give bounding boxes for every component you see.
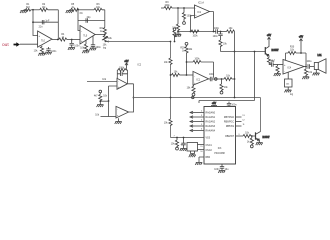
svg-text:100u: 100u [306,61,312,63]
svg-text:100n: 100n [51,51,57,53]
node [186,61,188,63]
svg-text:100k: 100k [187,16,193,18]
ground [256,142,263,145]
svg-text:BC557: BC557 [272,50,280,52]
wire mid reference [109,86,118,117]
resistor R4 1k [59,34,67,41]
wire [20,43,38,45]
op-amp U1 IC2:B [38,31,52,47]
pin 4 wire [190,125,204,128]
ground [302,77,309,79]
svg-text:BC547: BC547 [263,137,271,139]
ground [274,74,281,76]
resistor R8 1k [100,28,107,35]
svg-text:RA2/AN2: RA2/AN2 [206,121,216,124]
node [300,52,302,54]
node [77,9,79,11]
resistor R22 100k [193,59,201,64]
ground [174,32,181,37]
node [170,97,172,99]
terminal [185,42,188,45]
resistor R16 100k [191,30,199,37]
node [221,78,223,80]
node [183,7,185,9]
op-amp U4 IC2:D [116,106,129,118]
pin 3 wire [190,120,204,123]
svg-text:+: + [180,143,182,147]
wire [79,9,94,11]
wire [210,12,214,32]
svg-text:1M: 1M [42,7,45,9]
svg-text:RB7/PGD: RB7/PGD [224,117,234,119]
wire (bus to VSS pin) [171,137,205,139]
pin 5 wire [190,129,204,132]
wire input arrow [14,42,20,46]
node [254,51,256,53]
wire [101,116,117,118]
ground (under U4) [115,118,122,124]
wire (bus top tap) [174,37,176,42]
resistor R7 10k [80,40,87,51]
resistor R11 100k [117,68,127,72]
svg-text:OSC2: OSC2 [206,150,213,152]
pin RB0 wire [199,157,204,162]
wire [234,32,236,98]
node label R9 100k [165,2,171,7]
wire [52,39,59,41]
node [234,51,236,53]
ground [180,149,187,151]
capacitor C6 [117,72,127,76]
ground (speaker) [313,70,320,76]
svg-text:out: out [2,42,9,48]
power +5V (IC supply) [211,103,217,107]
node [234,78,236,80]
transistor Q1 BC557 [265,43,279,57]
node [234,97,236,99]
svg-text:R30: R30 [290,47,295,49]
terminal TP1 [99,90,102,93]
transistor Q2 BC547 [256,132,271,142]
capacitor C2 100n [46,47,57,53]
svg-text:RB6/PGC: RB6/PGC [224,121,234,123]
terminal [176,147,179,150]
svg-text:100n: 100n [96,47,102,49]
resistor R17 10k [172,8,179,32]
svg-text:RA0/AN0: RA0/AN0 [206,112,216,115]
trimpot VR2 [285,72,294,96]
wire [33,21,58,23]
resistor R9 [164,6,172,9]
wire [209,78,211,80]
node [177,31,179,33]
resistor R23 10k (to terminal) [187,85,196,93]
terminal [183,22,186,25]
terminal [250,145,253,148]
svg-text:100n: 100n [74,46,80,48]
capacitor C12 100n (right stage input) [269,61,283,67]
power +5V [124,61,129,70]
op-amp U3 IC2:C [117,78,127,89]
node [186,74,188,76]
node [177,7,179,9]
resistor R32 10k [304,67,312,77]
svg-text:+5V: +5V [124,61,129,63]
svg-text:100k: 100k [195,59,201,61]
ground G1 (stage 1 divider) [20,10,27,13]
resistor R13 10k (bus inline) [164,58,172,65]
wire (main bus) [170,42,172,138]
node [305,66,307,68]
resistor R5 1k [71,4,83,15]
wire [102,10,105,28]
node [170,41,172,43]
svg-text:100n: 100n [231,104,237,106]
ground [45,52,52,54]
resistor R28 10k [171,138,179,148]
svg-text:VSS: VSS [206,138,211,140]
op-amp U7 IC4 [283,60,304,75]
resistor R15 100k [182,8,192,22]
pin 14 wire [236,121,242,123]
wire feedback legs [117,70,127,84]
svg-text:IC1:A: IC1:A [198,2,204,5]
svg-text:LS1: LS1 [317,55,322,57]
resistor R19 10k [219,40,228,52]
resistor R14 10k (bus inline) [164,119,172,126]
capacitor C9 100n [227,102,237,107]
wire (comparator outputs joined) [127,84,133,112]
svg-text:+5V: +5V [299,37,304,39]
IC IC3 PIC16F88 [204,107,236,165]
svg-text:+: + [81,39,83,43]
capacitor C11 100n (under IC) [214,164,229,171]
ground [218,171,225,173]
svg-text:100k: 100k [119,68,125,70]
terminal [215,78,218,81]
resistor R10 [173,31,182,37]
op-amp U6 IC1:B [193,71,209,85]
wire [48,10,59,40]
svg-text:RA4/AN4: RA4/AN4 [206,130,216,133]
node [99,100,101,102]
svg-text:100n: 100n [214,28,220,30]
node [176,137,178,139]
wire [67,39,80,41]
resistor R18 10k [227,28,235,33]
wire [33,10,38,36]
ground [195,163,202,165]
svg-text:OSC1: OSC1 [206,145,213,147]
capacitor C10 1u [180,138,186,149]
resistor R12 4k7 [94,93,108,105]
capacitor C1 22n [32,20,50,28]
svg-text:RB0: RB0 [206,157,211,159]
svg-text:RA3/AN3: RA3/AN3 [206,125,216,128]
wire [304,66,306,68]
ground [284,90,291,92]
terminal [192,93,195,96]
svg-text:-: - [284,70,285,73]
resistor R20 1k [180,45,193,75]
svg-text:-: - [39,43,40,47]
wire [95,34,105,36]
ground [68,48,75,50]
capacitor C3 100n [70,40,81,48]
ground [89,48,96,50]
wire [171,74,172,76]
resistor R26 (base pulldown) [247,136,254,145]
node [133,97,135,99]
wire (to Q1 base) [221,51,266,53]
resistor R1 3k3 [24,4,31,11]
pin 2 wire [190,116,204,119]
resistor R24 10k (below output) [220,79,228,91]
wire [78,10,80,31]
pin labels left [206,112,216,160]
ground (crystal) [189,151,196,157]
svg-text:100k: 100k [193,35,199,37]
terminal [173,28,176,31]
power +5V [299,37,304,53]
wire (module box edge) [199,52,255,104]
wire (comparator input) [87,81,117,83]
ground [38,53,45,55]
capacitor C14 100n [209,74,215,81]
node [104,34,106,36]
svg-text:+5V: +5V [267,35,272,37]
node [213,31,215,33]
resistor R3 10k [34,46,44,54]
terminal (on wire) [192,96,194,98]
svg-text:-: - [81,29,82,33]
wire (long comparator output wire) [134,98,261,132]
wire [191,15,195,31]
svg-text:RB5/SS: RB5/SS [226,126,235,128]
svg-text:1nF: 1nF [45,20,50,22]
wire feedback [178,31,214,33]
node [220,31,222,33]
wire feedback [187,62,214,78]
wire [212,78,224,80]
wire [78,20,105,22]
pin 1 wire [190,111,204,114]
svg-text:PIC16F88: PIC16F88 [214,153,225,155]
ground [97,105,104,107]
wire [161,7,164,9]
node [183,137,185,139]
wire [79,39,81,41]
node [251,135,253,137]
resistor R29 10k (Q2 base) [236,133,256,138]
op-amp U2 IC2:A [80,26,95,45]
capacitor C4 22p [86,17,91,23]
ground G2 (stage 2 divider) [66,10,73,13]
potentiometer VR1 10k [102,35,113,50]
wire (long signal wire to bus) [108,41,170,43]
capacitor C8 100n (divider chain) [213,32,223,41]
wire [100,100,108,102]
resistor R2 1M [40,4,48,12]
svg-text:RB0/INT: RB0/INT [225,136,234,138]
resistor R21 10k [172,71,187,76]
speaker LS1 [314,55,326,73]
wire [217,31,226,33]
node [108,100,110,102]
wire feedback [286,53,307,67]
capacitor C13 100u [305,61,314,69]
svg-text:100n: 100n [213,36,219,38]
pin numbers left [173,111,203,153]
svg-text:R20: R20 [180,47,185,49]
wire [172,7,195,9]
ground [82,51,89,53]
crystal X1 [187,143,204,152]
svg-text:100n: 100n [209,74,215,76]
node [170,74,172,76]
wire [31,9,40,11]
terminal [220,91,223,94]
pin 15 wire [236,116,242,118]
resistor R31 10k [288,47,296,55]
pin numbers right [238,115,245,136]
node divider top [32,9,34,11]
pin 13 wire [236,125,242,127]
resistor R30 [276,65,279,74]
op-amp U5 IC1:A [195,2,210,18]
resistor R6 10k [94,4,102,12]
node [190,31,192,33]
resistor R27 4k7 [267,55,275,64]
pin labels right [224,117,235,138]
power +5V [267,35,272,42]
node [107,41,109,43]
capacitor C7 100n [214,28,220,34]
svg-text:RA1/AN1: RA1/AN1 [206,116,216,119]
capacitor C5 100n [91,36,102,49]
wire [105,41,109,43]
svg-text:1%: 1% [79,13,82,15]
resistor R25 10k [224,76,235,81]
node [57,39,59,41]
